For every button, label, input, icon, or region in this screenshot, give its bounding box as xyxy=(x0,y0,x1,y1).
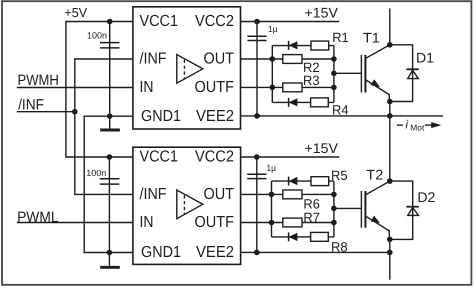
label +15V lower xyxy=(305,140,339,156)
label /INF xyxy=(18,97,44,114)
wire GND net linking GND1 pins xyxy=(84,116,133,252)
svg-text:T2: T2 xyxy=(366,167,383,183)
resistor R7 xyxy=(283,218,302,227)
node upper network right OUTF xyxy=(331,85,337,91)
label T1 xyxy=(363,30,380,46)
node C4 to VEE2 rail xyxy=(254,250,260,256)
wire /INF input xyxy=(17,111,75,113)
svg-text:PWMH: PWMH xyxy=(18,72,59,89)
capacitor C2 100n plates xyxy=(100,179,120,184)
node lower network left OUT xyxy=(269,192,275,198)
label R4 xyxy=(332,103,349,118)
diode D1 xyxy=(406,69,418,78)
wire D1 loop xyxy=(390,45,413,102)
wire OUTF of IC1 to gate network xyxy=(241,86,334,88)
pin label GND1 (IC1) xyxy=(141,108,181,125)
node GND1 IC1 junction xyxy=(107,113,113,119)
svg-text:R8: R8 xyxy=(331,239,348,254)
value label 100n (C2) xyxy=(86,168,106,178)
resistor R6 xyxy=(283,190,302,199)
capacitor C4 1u plates xyxy=(247,174,266,178)
wire VEE2 rail upper (emitter rail) xyxy=(241,115,444,117)
diode D4 (antiparallel, lower of upper network) xyxy=(289,98,298,107)
resistor R4 xyxy=(311,98,329,107)
wire gate of T2 xyxy=(334,207,361,209)
wire PWMH input to IN of IC1 xyxy=(17,87,133,89)
label R3 xyxy=(303,73,320,88)
capacitor C4 1u lead xyxy=(256,157,258,252)
driver IC2 box xyxy=(133,147,241,264)
label R5 xyxy=(331,168,348,183)
resistor R2 xyxy=(283,55,302,64)
node T1 collector xyxy=(387,42,393,48)
wire branch with D6 and R8 xyxy=(272,236,334,238)
pin label VCC1 (IC2) xyxy=(140,149,179,166)
wire OUT of IC1 to gate network xyxy=(241,58,334,60)
svg-text:VCC2: VCC2 xyxy=(195,149,234,166)
label R8 xyxy=(331,239,348,254)
node upper network left OUTF xyxy=(270,85,276,91)
op-amp buffer symbol IC1 xyxy=(177,55,203,84)
svg-text:OUTF: OUTF xyxy=(195,79,235,96)
svg-text:100n: 100n xyxy=(87,31,107,41)
svg-text:/INF: /INF xyxy=(140,51,167,68)
wire +15V rail upper xyxy=(241,21,340,23)
svg-text:IN: IN xyxy=(140,214,154,231)
label T2 xyxy=(366,167,383,183)
resistor R1 xyxy=(311,41,329,50)
wire OUT of IC2 to gate network xyxy=(241,193,334,195)
pin label IN (IC2) xyxy=(140,214,154,231)
wire VEE2 rail lower xyxy=(241,251,390,253)
svg-text:D2: D2 xyxy=(417,189,435,205)
wire branch with D4 and R4 xyxy=(272,101,334,103)
svg-text:D1: D1 xyxy=(416,50,434,66)
svg-text:1µ: 1µ xyxy=(268,24,278,34)
svg-text:R7: R7 xyxy=(303,210,320,225)
node lower network right OUTF xyxy=(331,220,337,226)
node T2 collector xyxy=(387,178,393,184)
svg-text:R1: R1 xyxy=(332,30,349,45)
pin label VCC2 (IC1) xyxy=(195,13,234,30)
wire +15V rail lower xyxy=(241,156,340,158)
node VCC2 IC2 junction xyxy=(254,154,260,160)
svg-text:VCC1: VCC1 xyxy=(140,13,179,30)
wire gate of T1 xyxy=(334,72,361,74)
label minus iMot arrow xyxy=(397,118,442,133)
node T1 emitter xyxy=(387,99,393,105)
node T2 emitter xyxy=(387,237,393,243)
capacitor C1 100n plates xyxy=(100,43,120,48)
label R6 xyxy=(303,196,320,211)
pin label VCC1 (IC1) xyxy=(140,13,179,30)
svg-text:R3: R3 xyxy=(303,73,320,88)
pin label VEE2 (IC1) xyxy=(196,108,234,125)
wire right vertical of upper gate network xyxy=(333,46,335,103)
svg-text:/INF: /INF xyxy=(140,186,167,203)
svg-text:+5V: +5V xyxy=(64,5,87,20)
svg-text:VCC1: VCC1 xyxy=(140,149,179,166)
pin label OUTF (IC1) xyxy=(195,79,235,96)
svg-text:T1: T1 xyxy=(363,30,380,46)
pin label VCC2 (IC2) xyxy=(195,149,234,166)
svg-text:VEE2: VEE2 xyxy=(196,108,234,125)
wire DC bus top segment xyxy=(389,8,391,44)
wire phase bus middle segment xyxy=(389,102,391,182)
diode D5 (antiparallel, upper of lower network) xyxy=(289,177,298,186)
resistor R8 xyxy=(311,232,329,241)
pin label VEE2 (IC2) xyxy=(196,244,234,261)
node lower network right OUT xyxy=(331,192,337,198)
svg-text:OUT: OUT xyxy=(204,186,235,203)
node +5V junction to C1 xyxy=(107,19,113,25)
value label 1u (C4) xyxy=(267,163,277,173)
node VCC2 IC1 junction xyxy=(254,19,260,25)
diode D6 (antiparallel, lower) xyxy=(289,232,298,241)
svg-text:100n: 100n xyxy=(86,168,106,178)
node VEE2 rail lower junction xyxy=(387,250,393,256)
diode D3 (antiparallel, upper) xyxy=(289,41,298,50)
label D1 xyxy=(416,50,434,66)
svg-text:R5: R5 xyxy=(331,168,348,183)
resistor R5 xyxy=(311,177,329,186)
svg-text:/INF: /INF xyxy=(18,97,44,114)
label +5V xyxy=(64,5,87,20)
capacitor C3 1u lead xyxy=(256,22,258,116)
wire left vertical of upper gate network xyxy=(271,46,273,103)
ground (upper) xyxy=(100,116,120,130)
node C3 to VEE2 rail xyxy=(254,113,260,119)
wire bus bottom segment xyxy=(389,239,391,279)
pin label IN (IC1) xyxy=(140,79,154,96)
svg-text:VCC2: VCC2 xyxy=(195,13,234,30)
wire /INF net to both ICs xyxy=(75,59,133,194)
label PWML xyxy=(17,209,58,226)
label R7 xyxy=(303,210,320,225)
svg-text:+15V: +15V xyxy=(305,140,339,156)
node VCC1 IC2 junction xyxy=(107,154,113,160)
capacitor C1 100n lead xyxy=(109,22,111,117)
resistor R3 xyxy=(283,83,302,92)
wire branch with D3 and R1 xyxy=(272,45,334,47)
diode D2 xyxy=(406,207,418,216)
wire D2 loop xyxy=(390,181,413,239)
capacitor C2 100n lead xyxy=(108,157,110,253)
ground (lower) xyxy=(100,253,120,268)
node GND1 IC2 junction xyxy=(107,250,113,256)
svg-text:1µ: 1µ xyxy=(267,163,277,173)
svg-text:PWML: PWML xyxy=(17,209,58,226)
wire right vertical of lower gate network xyxy=(333,181,335,237)
op-amp buffer symbol IC2 xyxy=(177,190,203,219)
label R2 xyxy=(303,60,320,75)
node upper network left OUT xyxy=(270,56,276,62)
node lower network left OUTF xyxy=(269,220,275,226)
label PWMH xyxy=(18,72,59,89)
svg-text:OUTF: OUTF xyxy=(195,214,235,231)
pin label OUTF (IC2) xyxy=(195,214,235,231)
pin label GND1 (IC2) xyxy=(141,244,181,261)
pin label OUT (IC2) xyxy=(204,186,235,203)
wire PWML input to IN of IC2 xyxy=(17,222,133,224)
svg-text:VEE2: VEE2 xyxy=(196,244,234,261)
label D2 xyxy=(417,189,435,205)
node lower network gate tap xyxy=(331,206,337,212)
label +15V upper xyxy=(305,5,339,21)
pin label /INF (IC1) xyxy=(140,51,167,68)
svg-text:i: i xyxy=(405,118,408,132)
transistor T2 IGBT xyxy=(361,181,389,239)
driver IC1 box xyxy=(133,7,241,129)
node upper network right OUT xyxy=(331,56,337,62)
svg-text:IN: IN xyxy=(140,79,154,96)
transistor T1 IGBT xyxy=(361,45,389,102)
wire OUTF of IC2 to gate network xyxy=(241,222,334,224)
wire branch with D5 and R5 xyxy=(272,180,334,182)
value label 1u (C3) xyxy=(268,24,278,34)
node emitter rail junction xyxy=(387,113,393,119)
svg-text:OUT: OUT xyxy=(204,51,235,68)
svg-text:R4: R4 xyxy=(332,103,349,118)
svg-text:GND1: GND1 xyxy=(141,108,181,125)
svg-text:+15V: +15V xyxy=(305,5,339,21)
svg-text:Mot: Mot xyxy=(410,123,425,133)
node upper network gate tap xyxy=(331,71,337,77)
pin label /INF (IC2) xyxy=(140,186,167,203)
capacitor C3 1u plates xyxy=(247,36,266,40)
pin label OUT (IC1) xyxy=(204,51,235,68)
wire left vertical of lower gate network xyxy=(271,181,273,237)
label R1 xyxy=(332,30,349,45)
node /INF junction xyxy=(72,109,78,115)
svg-text:GND1: GND1 xyxy=(141,244,181,261)
value label 100n (C1) xyxy=(87,31,107,41)
wire +5V rail to VCC1 of IC1 and down to VCC1 of IC2 xyxy=(66,22,133,158)
